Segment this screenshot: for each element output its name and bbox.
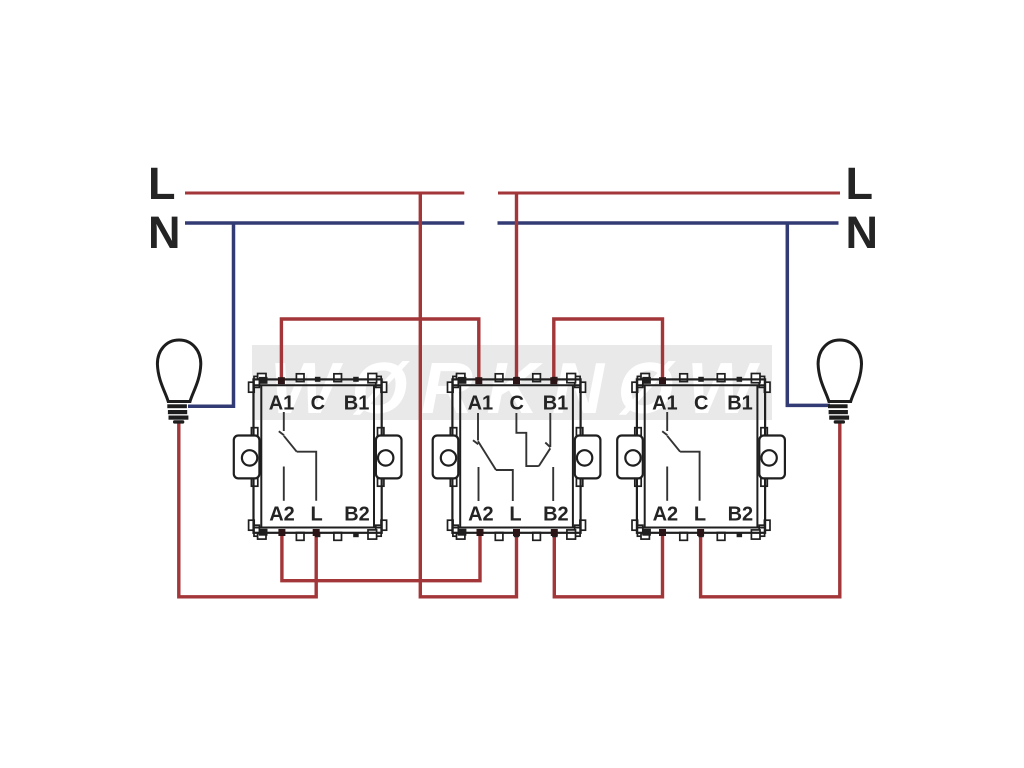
- svg-text:WØRKNØW: WØRKNØW: [270, 349, 768, 429]
- wire N drop to lamp E1: [188, 223, 234, 406]
- wire traveler SW2 B2 to SW3 A2: [554, 532, 662, 597]
- switch SW3 terminal A1: [659, 377, 666, 384]
- switch SW1 mechanism: [279, 412, 316, 501]
- lamp E1: [157, 340, 200, 424]
- switch SW1 terminal A1: [278, 377, 285, 384]
- switch SW2 terminal C: [513, 377, 520, 384]
- wire N left (blue): [185, 221, 464, 225]
- switch SW3 mechanism: [662, 412, 699, 501]
- switch SW1 terminal A2: [278, 529, 285, 536]
- svg-text:L: L: [148, 158, 176, 209]
- switch SW2 terminal B2: [551, 529, 558, 536]
- wire L line to SW2 C terminal: [515, 193, 518, 380]
- switch SW3: [617, 374, 785, 541]
- lamp E2: [818, 340, 861, 424]
- wire N right (blue): [498, 221, 839, 225]
- wire L feed to SW2 L terminal: [420, 193, 516, 597]
- switch SW2: [433, 374, 601, 541]
- switch SW2 mechanism: [473, 413, 553, 501]
- switch SW3 terminal A2: [659, 529, 666, 536]
- switch SW1: [234, 374, 402, 541]
- wire traveler SW2 B1 to SW3 A1: [554, 319, 663, 380]
- wire traveler SW1 A2 to SW2 A2: [282, 532, 480, 581]
- wire SW3 L to lamp E2: [701, 421, 840, 597]
- svg-text:L: L: [846, 158, 874, 209]
- switch SW3 terminal L: [697, 529, 704, 536]
- wire traveler SW1 A1 to SW2 A1: [281, 319, 478, 380]
- switch SW1 terminal L: [313, 529, 320, 536]
- wire L left (red): [185, 192, 464, 195]
- switch SW2 terminal L: [513, 529, 520, 536]
- switch SW2 terminal A2: [477, 529, 484, 536]
- wire L right (red): [498, 192, 840, 195]
- switch SW2 terminal A1: [475, 377, 482, 384]
- wire N drop to lamp E2: [787, 223, 830, 405]
- wire lamp E1 to SW1 L: [179, 421, 316, 597]
- watermark band: [252, 345, 772, 429]
- svg-text:N: N: [148, 207, 181, 258]
- svg-text:N: N: [846, 207, 879, 258]
- switch SW2 terminal B1: [550, 377, 557, 384]
